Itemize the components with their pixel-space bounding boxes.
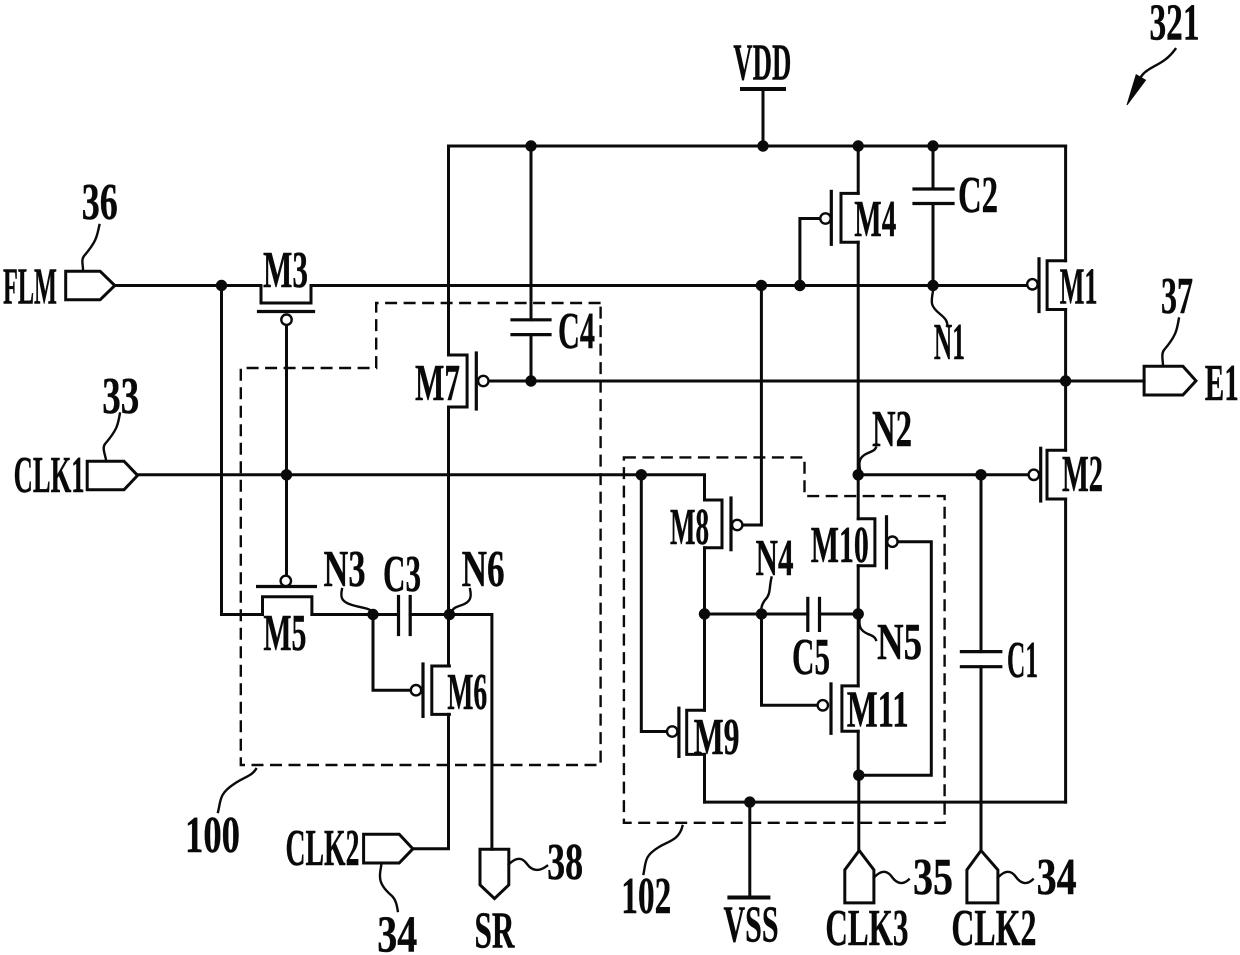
wire node N4 horizontal — [705, 613, 808, 616]
svg-text:M1: M1 — [1060, 259, 1098, 316]
svg-text:33: 33 — [102, 368, 139, 425]
svg-text:VSS: VSS — [724, 897, 779, 954]
wire VSS bottom rail — [705, 801, 1066, 804]
dashed block 100 boundary — [241, 303, 601, 765]
svg-text:N3: N3 — [324, 541, 366, 598]
svg-text:34: 34 — [377, 907, 417, 955]
leader 33 — [104, 414, 120, 460]
transistor M11 — [818, 684, 859, 733]
svg-text:C3: C3 — [383, 546, 421, 603]
svg-text:CLK1: CLK1 — [14, 447, 85, 504]
leader N3 — [341, 589, 372, 612]
leader N2 — [859, 448, 876, 470]
junction dot node N6 — [444, 609, 455, 620]
svg-text:SR: SR — [475, 903, 516, 955]
leader 37 — [1162, 319, 1179, 367]
junction dot CLK1/M3-M5 gates — [281, 469, 292, 480]
wire M10 gate loop — [859, 542, 931, 776]
svg-text:34: 34 — [1037, 849, 1077, 906]
wire E1 horizontal net — [489, 380, 1145, 383]
wire M4/M10/M11/CLK3 column — [857, 146, 860, 193]
junction dot N1/C2 — [927, 280, 938, 291]
wire M3 gate / M5 gate column — [285, 325, 288, 575]
wire C1 / CLK2 right column — [980, 475, 983, 652]
wire FLM/N1 horizontal net — [115, 284, 261, 287]
svg-text:37: 37 — [1161, 268, 1193, 325]
junction dot N1/M4 gate branch — [794, 280, 805, 291]
svg-text:N5: N5 — [877, 614, 922, 671]
wire C2 column — [932, 146, 935, 189]
wire CLK1 to M9 gate column — [641, 475, 667, 732]
transistor M8 — [705, 498, 743, 550]
capacitor C4 — [512, 320, 550, 335]
svg-text:N4: N4 — [756, 530, 794, 587]
wire M8/M9 column — [703, 548, 706, 711]
terminal SR output arrow — [480, 849, 509, 898]
svg-text:M2: M2 — [1062, 446, 1103, 503]
svg-text:N2: N2 — [872, 401, 912, 458]
junction dot rail/VDD — [757, 140, 768, 151]
svg-text:M3: M3 — [263, 242, 308, 299]
wire C4 column — [530, 146, 533, 320]
leader 35 — [874, 872, 909, 883]
junction dot E1/M1 — [1060, 375, 1071, 386]
transistor M5 — [258, 576, 316, 615]
svg-text:N6: N6 — [462, 541, 505, 598]
capacitor C5 — [808, 598, 820, 630]
wire N1 to M8 gate column — [742, 286, 761, 526]
svg-text:321: 321 — [1150, 0, 1200, 51]
leader arrow 321 — [1127, 49, 1175, 105]
svg-text:M11: M11 — [847, 682, 909, 739]
leader N5 — [859, 617, 876, 640]
svg-text:102: 102 — [621, 868, 671, 925]
leader 100 — [218, 769, 256, 812]
svg-text:CLK2: CLK2 — [286, 820, 360, 877]
terminal FLM input arrow — [66, 271, 115, 300]
junction dot FLM/M5 branch — [216, 280, 227, 291]
svg-text:M5: M5 — [263, 605, 306, 662]
svg-text:36: 36 — [82, 174, 118, 231]
junction dot N4/M11 gate branch — [756, 608, 767, 619]
svg-text:E1: E1 — [1205, 355, 1239, 412]
leader N1 — [932, 291, 948, 326]
svg-text:M7: M7 — [415, 355, 460, 412]
wire N4 to M11 gate column — [762, 614, 818, 705]
junction dot rail/M4 — [853, 140, 864, 151]
transistor M9 — [667, 708, 705, 756]
terminal E1 output arrow — [1144, 366, 1196, 395]
svg-text:M9: M9 — [694, 709, 740, 766]
wire VDD top rail — [449, 145, 1066, 148]
wire M4 gate to N1 — [800, 219, 820, 286]
junction dot node N2 — [853, 469, 864, 480]
svg-text:M6: M6 — [447, 664, 487, 721]
svg-text:100: 100 — [185, 807, 240, 864]
svg-text:FLM: FLM — [3, 259, 57, 316]
svg-text:VDD: VDD — [733, 35, 791, 92]
power VDD symbol — [742, 89, 784, 146]
wire node N2 horizontal — [858, 473, 1028, 476]
leader 36 — [82, 225, 99, 270]
wire M1/M2 right column — [1064, 146, 1067, 261]
transistor M1 — [1027, 259, 1065, 312]
svg-text:M8: M8 — [670, 499, 709, 556]
terminal CLK2 input arrow (left) — [364, 834, 413, 863]
svg-text:38: 38 — [547, 834, 583, 891]
junction dot E1/M7 gate/C4 — [525, 375, 536, 386]
junction dot N2/C1 — [975, 469, 986, 480]
leader N6 — [452, 589, 471, 612]
svg-text:C1: C1 — [1007, 632, 1038, 689]
junction dot node N3 — [367, 609, 378, 620]
junction dot rail/C2 — [927, 140, 938, 151]
junction dot node N5 — [853, 608, 864, 619]
leader 102 — [644, 826, 683, 874]
capacitor C3 — [399, 597, 411, 635]
transistor M6 — [411, 664, 450, 716]
wire N3 to M6 gate — [373, 615, 411, 691]
junction dot N1/M8 gate branch — [756, 280, 767, 291]
capacitor C1 — [961, 652, 1000, 667]
capacitor C2 — [914, 189, 953, 204]
wire CLK1 horizontal net — [138, 475, 705, 500]
svg-text:M4: M4 — [854, 191, 896, 248]
svg-text:N1: N1 — [934, 314, 965, 371]
junction dot M11 source/M10 gate loop — [853, 770, 864, 781]
terminal CLK3 input arrow (bottom) — [845, 851, 874, 903]
leader 34 left — [380, 864, 398, 911]
svg-text:C4: C4 — [558, 303, 595, 360]
junction dot CLK1/M9 gate branch — [636, 469, 647, 480]
leader N4 — [761, 578, 771, 612]
dashed block 102 boundary — [624, 457, 945, 822]
svg-text:M10: M10 — [811, 517, 869, 574]
terminal CLK2 input arrow (bottom right) — [967, 851, 998, 903]
transistor M4 — [820, 191, 858, 244]
transistor M7 — [449, 353, 489, 409]
transistor M2 — [1029, 448, 1066, 501]
ground VSS symbol — [729, 802, 768, 897]
transistor M10 — [858, 517, 897, 568]
junction dot N4/M8-M9 column — [699, 608, 710, 619]
transistor M3 — [259, 286, 314, 325]
svg-text:35: 35 — [913, 849, 953, 906]
terminal CLK1 input arrow — [87, 461, 137, 490]
leader 38 — [509, 859, 547, 870]
svg-text:CLK3: CLK3 — [825, 900, 908, 955]
leader 34 right — [998, 872, 1033, 883]
wire M5 row / N3 / N6 horizontal — [222, 286, 263, 615]
svg-text:C5: C5 — [792, 629, 830, 686]
svg-text:CLK2: CLK2 — [951, 900, 1036, 955]
junction dot rail/C4 — [525, 140, 536, 151]
svg-text:C2: C2 — [958, 167, 998, 224]
wire M7/M6 center column — [447, 146, 450, 355]
junction dot VSS rail — [744, 796, 755, 807]
